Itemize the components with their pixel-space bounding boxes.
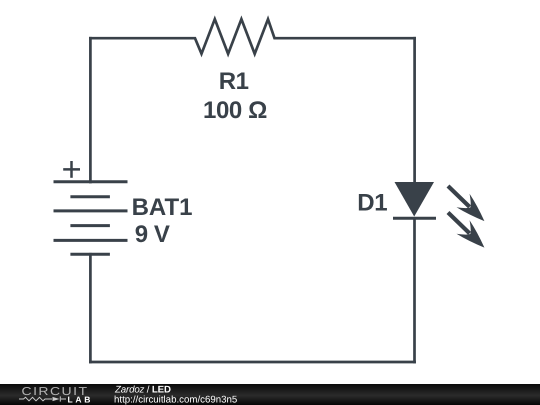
svg-text:http://circuitlab.com/c69n3n5: http://circuitlab.com/c69n3n5 — [114, 394, 237, 405]
svg-text:BAT1: BAT1 — [132, 194, 193, 221]
svg-text:R1: R1 — [219, 68, 249, 95]
svg-text:LAB: LAB — [68, 395, 94, 405]
svg-text:9 V: 9 V — [135, 221, 170, 248]
svg-text:D1: D1 — [357, 190, 387, 217]
svg-text:100 Ω: 100 Ω — [203, 97, 267, 124]
